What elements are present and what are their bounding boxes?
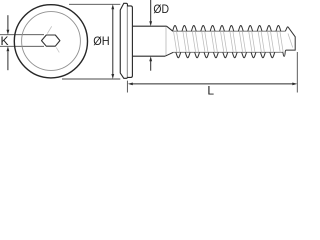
K dimension line upper with arrow: [7, 15, 9, 30]
cone to thread top: [167, 26, 173, 31]
OH dimension line: [112, 8, 114, 75]
K dimension extension line upper: [0, 34, 44, 36]
svg-text:ØH: ØH: [93, 34, 109, 48]
OD label: [153, 2, 169, 16]
thread root line top: [173, 30, 286, 32]
OH bottom extension line: [62, 78, 120, 80]
OH label: [93, 34, 109, 48]
OH arrow up: [111, 4, 114, 9]
svg-text:K: K: [0, 34, 8, 48]
head boss (side view): [127, 6, 132, 78]
L right extension line: [296, 52, 298, 93]
OH top extension line: [69, 3, 120, 5]
thread root line bottom: [173, 51, 282, 53]
OD leader upper with arrow: [150, 0, 152, 22]
OD leader lower with arrow: [150, 61, 152, 71]
svg-text:ØD: ØD: [153, 2, 169, 16]
neck top outline: [132, 25, 166, 27]
thread top crests: [173, 25, 281, 31]
hex socket chamfer highlight line lower: [56, 47, 59, 52]
hex socket chamfer highlight line upper: [47, 26, 51, 33]
K dimension extension line lower: [0, 45, 44, 47]
neck bottom outline: [132, 55, 165, 57]
thread bottom crests: [176, 52, 275, 57]
K label: [0, 34, 8, 48]
screw head flange inner circle (front view): [22, 12, 81, 71]
cone to thread bottom: [165, 52, 173, 56]
L arrow right: [292, 83, 297, 86]
L label: [207, 84, 214, 98]
L dimension line: [132, 83, 293, 85]
L arrow left: [128, 83, 133, 86]
head flange (side view, chamfered front corners): [120, 3, 127, 78]
screw head outer circle (front view): [14, 5, 87, 78]
hex socket (front view): [42, 35, 60, 46]
svg-text:L: L: [207, 84, 214, 96]
K dimension line lower with arrow: [7, 51, 9, 70]
OH arrow down: [111, 74, 114, 79]
neck end face: [165, 27, 167, 56]
screw tip outline: [283, 27, 296, 57]
thread flank lines: [174, 31, 293, 52]
L left extension line: [126, 81, 128, 93]
